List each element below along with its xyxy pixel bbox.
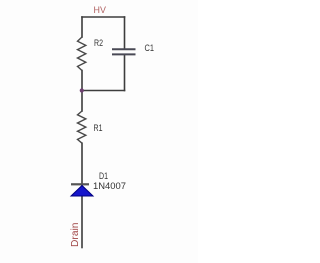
svg-text:1N4007: 1N4007: [93, 181, 126, 192]
svg-text:HV: HV: [94, 5, 107, 16]
svg-text:Drain: Drain: [70, 223, 81, 248]
svg-text:C1: C1: [145, 43, 155, 54]
svg-text:R2: R2: [94, 38, 103, 49]
svg-text:R1: R1: [94, 123, 103, 134]
